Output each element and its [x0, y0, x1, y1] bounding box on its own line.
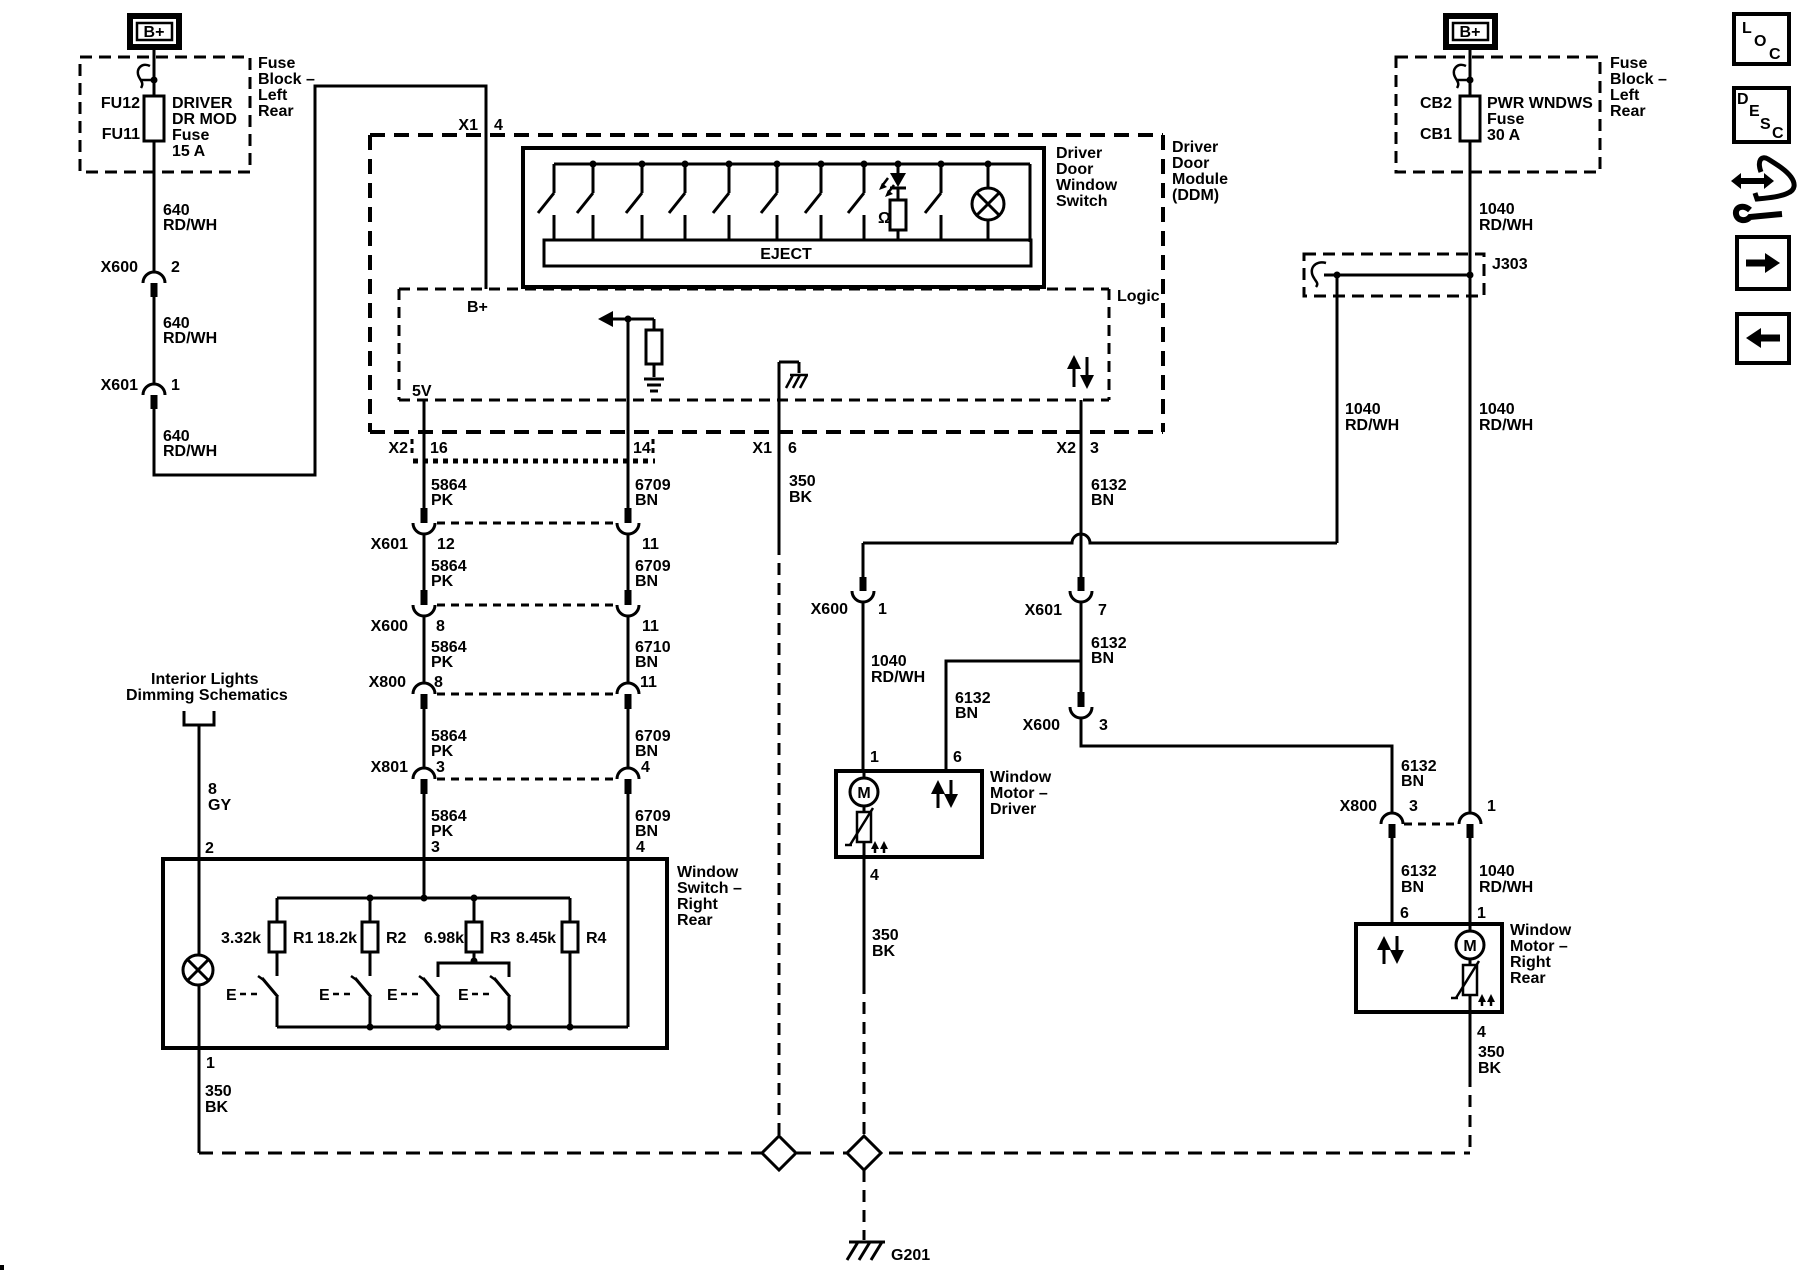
svg-text:FU11: FU11: [102, 126, 140, 143]
svg-text:4: 4: [494, 117, 503, 134]
svg-text:PK: PK: [431, 573, 454, 590]
svg-text:1040: 1040: [1479, 863, 1515, 880]
wire motor driver to ground bus (350 BK): [864, 857, 899, 1136]
window motor driver box: [836, 771, 982, 857]
junction block J303 dashed box: [1304, 254, 1484, 296]
wire X801-4 to switch pin 4 (6709 BN): [627, 794, 630, 1027]
svg-text:Driver: Driver: [1056, 145, 1102, 162]
svg-text:RD/WH: RD/WH: [163, 330, 217, 347]
svg-text:BK: BK: [872, 943, 896, 960]
node dots top bus: [367, 895, 374, 902]
scan artifact dot: [0, 1265, 4, 1270]
driver door window switch box: [523, 148, 1044, 287]
switch S3: [626, 161, 646, 241]
switch lamp right rear: [183, 955, 213, 985]
svg-text:X801: X801: [371, 759, 408, 776]
wire breaker to X800-1 (1040 RD/WH): [1469, 141, 1472, 813]
connector label X2 pin 3: [1056, 440, 1099, 457]
connector label X1 pin 4: [458, 117, 503, 134]
connector X600 pin 1: [811, 543, 887, 618]
svg-text:E: E: [387, 987, 398, 1004]
svg-text:11: 11: [642, 618, 659, 635]
svg-text:RD/WH: RD/WH: [163, 443, 217, 460]
switch S1: [538, 164, 554, 240]
svg-text:RD/WH: RD/WH: [871, 669, 925, 686]
svg-text:PK: PK: [431, 823, 454, 840]
connector X800 dashes: [1404, 823, 1456, 826]
svg-text:1040: 1040: [1345, 401, 1381, 418]
svg-text:15 A: 15 A: [172, 143, 206, 160]
wire X801-3 to switch pin 3 (5864 PK): [423, 794, 426, 898]
svg-text:X600: X600: [371, 618, 408, 635]
svg-text:(DDM): (DDM): [1172, 187, 1219, 204]
svg-text:8: 8: [436, 618, 445, 635]
svg-text:Rear: Rear: [1610, 103, 1646, 120]
svg-text:30 A: 30 A: [1487, 127, 1521, 144]
label Window Switch - Right Rear: [677, 864, 742, 929]
wire 640 RD/WH fuse to X600: [153, 141, 156, 271]
svg-text:E: E: [319, 987, 330, 1004]
wire X601-12 to X600-8 (5864 PK): [423, 534, 426, 590]
window switch right rear box: [163, 859, 667, 1048]
svg-text:11: 11: [640, 674, 657, 691]
svg-text:350: 350: [1478, 1044, 1505, 1061]
svg-text:8: 8: [208, 781, 217, 798]
node R3 to two switches: [438, 958, 509, 978]
icon LOC: [1734, 14, 1789, 64]
svg-text:Fuse: Fuse: [1487, 111, 1524, 128]
svg-text:1040: 1040: [1479, 401, 1515, 418]
svg-text:X601: X601: [371, 536, 408, 553]
svg-text:X1: X1: [752, 440, 772, 457]
wire diamond to ground G201: [863, 1170, 866, 1240]
wire X2-3 down (6132 BN): [1080, 400, 1083, 508]
wire X800-8 to X801-3 (5864 PK): [423, 709, 426, 768]
svg-text:Window: Window: [1056, 177, 1118, 194]
switch bus wire: [554, 163, 1030, 166]
svg-text:Right: Right: [1510, 954, 1552, 971]
svg-text:3: 3: [431, 839, 440, 856]
connector X601 pins 12 / 11: [371, 508, 659, 553]
splice diamond 2: [847, 1136, 881, 1170]
svg-text:S: S: [1760, 116, 1771, 133]
label 5864 PK (5): [431, 808, 467, 840]
connector X601 pin 1: [101, 377, 180, 409]
svg-text:EJECT: EJECT: [760, 246, 812, 263]
wire 5V to X601 (5864 PK): [423, 400, 426, 508]
connector X800 pin 1 (right): [1459, 798, 1496, 838]
control link E2: [319, 987, 354, 1004]
svg-text:Rear: Rear: [677, 912, 713, 929]
svg-text:FU12: FU12: [101, 95, 140, 112]
svg-text:3.32k: 3.32k: [221, 930, 261, 947]
svg-text:G201: G201: [891, 1247, 930, 1264]
resistor R3 6.98k: [424, 898, 511, 963]
svg-text:X800: X800: [369, 674, 406, 691]
label Fuse Block - Left Rear (right): [1610, 55, 1667, 120]
label 640 RD/WH (2): [163, 315, 217, 347]
label 5864 PK (3): [431, 639, 467, 671]
svg-text:X601: X601: [101, 377, 138, 394]
svg-text:2: 2: [171, 259, 180, 276]
small up arrows driver: [871, 841, 888, 853]
logic dashed box: [399, 289, 1109, 400]
svg-text:BK: BK: [789, 489, 813, 506]
motor M right rear: [1456, 924, 1484, 965]
svg-text:3: 3: [1099, 717, 1108, 734]
svg-text:J303: J303: [1492, 256, 1528, 273]
svg-text:BN: BN: [1091, 650, 1114, 667]
svg-text:Fuse: Fuse: [258, 55, 295, 72]
svg-text:Driver: Driver: [990, 801, 1036, 818]
svg-text:Rear: Rear: [1510, 970, 1546, 987]
svg-text:R2: R2: [386, 930, 407, 947]
svg-text:Interior Lights: Interior Lights: [151, 671, 259, 688]
switch S8: [848, 161, 868, 241]
svg-text:Door: Door: [1172, 155, 1209, 172]
svg-text:B+: B+: [144, 24, 165, 41]
connector X800 pin 3 (right): [1340, 798, 1418, 838]
svg-text:Module: Module: [1172, 171, 1228, 188]
label 6132 BN (3): [955, 690, 991, 722]
svg-text:X600: X600: [811, 601, 848, 618]
svg-text:3: 3: [436, 759, 445, 776]
control link E1: [226, 987, 261, 1004]
resistor R4 8.45k: [516, 898, 607, 1031]
label 6132 BN (5): [1401, 863, 1437, 896]
svg-text:Window: Window: [677, 864, 739, 881]
svg-text:1: 1: [870, 749, 879, 766]
wire X600-11 to X800-11 (6710 BN): [627, 616, 630, 683]
svg-text:6: 6: [953, 749, 962, 766]
svg-text:RD/WH: RD/WH: [1479, 879, 1533, 896]
fuse block left rear (left) dashed box: [80, 57, 250, 172]
label Window Motor - Right Rear: [1510, 922, 1572, 987]
label Driver Door Module (DDM): [1172, 139, 1228, 204]
control link E4: [458, 987, 493, 1004]
svg-text:1: 1: [1477, 905, 1486, 922]
svg-text:M: M: [857, 785, 870, 802]
svg-text:BN: BN: [1091, 492, 1114, 509]
chassis ground in logic (X1-6 net): [779, 362, 808, 400]
wire X600-3 to X800-3 (6132 BN): [1081, 718, 1392, 813]
circuit breaker CB1/CB2 PWR WNDWS 30A: [1460, 96, 1480, 141]
svg-text:12: 12: [437, 536, 455, 553]
wire J303 internal: [1324, 272, 1474, 279]
svg-text:X600: X600: [1023, 717, 1060, 734]
svg-text:RD/WH: RD/WH: [1345, 417, 1399, 434]
svg-text:GY: GY: [208, 797, 231, 814]
label 6709 BN (3): [635, 728, 671, 760]
label 6132 BN (2): [1091, 635, 1127, 667]
wire B+ to breaker: [1469, 47, 1472, 96]
svg-text:Block –: Block –: [258, 71, 315, 88]
resistor bus top: [277, 897, 570, 900]
svg-text:D: D: [1737, 91, 1749, 108]
svg-text:Left: Left: [258, 87, 288, 104]
wire X800-1 to motor pin 1 (1040 RD/WH): [1469, 838, 1472, 924]
wire B+ to fuse: [153, 47, 156, 96]
connector label X1 pin 6: [752, 440, 797, 457]
svg-text:Ω: Ω: [878, 210, 891, 227]
svg-text:Rear: Rear: [258, 103, 294, 120]
fuse block left rear (right) dashed box: [1396, 57, 1600, 172]
svg-text:PWR WNDWS: PWR WNDWS: [1487, 95, 1593, 112]
label Fuse Block - Left Rear (left): [258, 55, 315, 120]
LED with resistor (dimming): [878, 161, 906, 241]
svg-text:O: O: [1754, 33, 1766, 50]
svg-text:PK: PK: [431, 492, 454, 509]
svg-text:R4: R4: [586, 930, 607, 947]
svg-text:B+: B+: [1460, 24, 1481, 41]
icon arrow left: [1737, 314, 1789, 363]
svg-text:3: 3: [1090, 440, 1099, 457]
svg-text:11: 11: [642, 536, 659, 553]
wire X601-7 down (6132 BN): [1080, 602, 1083, 661]
svg-text:Fuse: Fuse: [172, 127, 209, 144]
svg-text:BN: BN: [635, 743, 658, 760]
svg-text:X800: X800: [1340, 798, 1377, 815]
svg-text:5V: 5V: [412, 383, 432, 400]
svg-text:BN: BN: [635, 654, 658, 671]
up/down arrows driver motor: [931, 780, 958, 808]
thermal protector right rear: [1451, 961, 1479, 1012]
connector X600 pin 2: [101, 259, 180, 297]
switch SW3: [419, 976, 442, 1031]
label 6710 BN: [635, 639, 671, 671]
svg-text:4: 4: [870, 867, 879, 884]
svg-text:X601: X601: [1025, 602, 1062, 619]
svg-text:C: C: [1772, 125, 1784, 142]
switch SW4: [490, 976, 513, 1031]
label 1040 RD/WH (right 3): [1479, 863, 1533, 896]
label 6709 BN (4): [635, 808, 671, 840]
label Window Motor - Driver: [990, 769, 1052, 818]
window up/down arrows in logic: [1067, 355, 1094, 389]
label 6709 BN (1): [635, 477, 671, 509]
circuit breaker hook left: [138, 65, 150, 88]
svg-text:BN: BN: [1401, 879, 1424, 896]
ground G201: [847, 1242, 930, 1264]
svg-text:E: E: [226, 987, 237, 1004]
indicator lamp in switch assembly: [972, 161, 1004, 241]
svg-text:BN: BN: [955, 705, 978, 722]
wire J303 tap to driver branch (1040 RD/WH): [1336, 275, 1339, 543]
svg-text:6: 6: [1400, 905, 1409, 922]
svg-text:Driver: Driver: [1172, 139, 1218, 156]
wire resistor node to pin 14: [627, 319, 630, 508]
svg-text:PK: PK: [431, 654, 454, 671]
svg-text:7: 7: [1098, 602, 1107, 619]
window motor right rear box: [1356, 924, 1502, 1012]
resistor R2 18.2k: [317, 898, 407, 976]
svg-text:Door: Door: [1056, 161, 1093, 178]
svg-text:6132: 6132: [1401, 863, 1437, 880]
svg-text:1040: 1040: [1479, 201, 1515, 218]
svg-text:1040: 1040: [871, 653, 907, 670]
wire 1040 RD/WH branch to driver motor with crossover hop: [863, 534, 1337, 543]
svg-text:Dimming Schematics: Dimming Schematics: [126, 687, 288, 704]
svg-text:8: 8: [434, 674, 443, 691]
wire branch to motor pin 6: [946, 661, 1081, 771]
svg-text:Block –: Block –: [1610, 71, 1667, 88]
svg-text:E: E: [1749, 103, 1760, 120]
svg-text:350: 350: [205, 1083, 232, 1100]
svg-text:X600: X600: [101, 259, 138, 276]
svg-text:1: 1: [878, 601, 887, 618]
label 1040 RD/WH (right 2): [1479, 401, 1533, 434]
label 1040 RD/WH (right 1): [1479, 201, 1533, 234]
label PWR WNDWS Fuse 30 A: [1487, 95, 1593, 144]
label 640 RD/WH (3): [163, 428, 217, 460]
EJECT bar: [544, 240, 1031, 266]
svg-text:18.2k: 18.2k: [317, 930, 357, 947]
svg-text:C: C: [1769, 46, 1781, 63]
label 6132 BN (4): [1401, 758, 1437, 790]
svg-text:1: 1: [206, 1055, 215, 1072]
label 6132 BN (1): [1091, 477, 1127, 509]
svg-text:BN: BN: [1401, 773, 1424, 790]
earth ground in logic: [644, 379, 664, 391]
svg-text:4: 4: [636, 839, 645, 856]
label 1040 RD/WH (motor drv): [871, 653, 925, 686]
svg-text:X1: X1: [458, 117, 478, 134]
svg-text:X2: X2: [388, 440, 408, 457]
driver door module DDM dashed box: [370, 135, 1163, 432]
wire X800-11 to X801-4 (6709 BN): [627, 709, 630, 768]
svg-text:16: 16: [430, 440, 448, 457]
switch output bus: [277, 1026, 628, 1029]
thermal protector driver: [845, 808, 873, 857]
wire motor right rear to ground bus (350 BK): [1470, 1012, 1505, 1153]
svg-text:RD/WH: RD/WH: [1479, 217, 1533, 234]
switch SW2: [351, 976, 374, 1031]
resistor R1 3.32k: [221, 898, 314, 976]
svg-text:Switch –: Switch –: [677, 880, 742, 897]
svg-text:14: 14: [633, 440, 651, 457]
wire X1-6 to ground bus (350 BK): [779, 400, 816, 1136]
svg-text:CB2: CB2: [1420, 95, 1452, 112]
control link E3: [387, 987, 422, 1004]
wire X600-8 to X800-8 (5864 PK): [423, 616, 426, 683]
connector X601 pin 7: [1025, 577, 1107, 619]
label 1040 RD/WH (tap): [1345, 401, 1399, 434]
circuit breaker hook right: [1454, 65, 1466, 88]
svg-text:Right: Right: [677, 896, 719, 913]
svg-text:8.45k: 8.45k: [516, 930, 556, 947]
wire X601-11 to X600-11 (6709 BN): [627, 534, 630, 590]
svg-text:RD/WH: RD/WH: [163, 217, 217, 234]
small up arrows right rear: [1478, 994, 1495, 1006]
switch S5: [713, 161, 733, 241]
svg-text:R3: R3: [490, 930, 511, 947]
splice diamond 1: [762, 1136, 796, 1170]
connector X800 pins 8 / 11: [369, 674, 657, 709]
internal pull-up: arrow, resistor, ground: [598, 311, 662, 377]
svg-text:BN: BN: [635, 573, 658, 590]
switch S7: [805, 161, 825, 241]
svg-text:350: 350: [872, 927, 899, 944]
wire X800-3 to motor pin 6 (6132 BN): [1391, 838, 1394, 924]
switch S6: [761, 161, 781, 241]
label 5864 PK (4): [431, 728, 467, 760]
svg-text:R1: R1: [293, 930, 314, 947]
switch SW1: [258, 976, 278, 1027]
svg-text:DR MOD: DR MOD: [172, 111, 237, 128]
svg-text:RD/WH: RD/WH: [1479, 417, 1533, 434]
svg-text:Fuse: Fuse: [1610, 55, 1647, 72]
svg-text:BK: BK: [205, 1099, 229, 1116]
power symbol B+ right: [1446, 16, 1495, 47]
power symbol B+ left: [130, 16, 179, 47]
svg-text:Window: Window: [1510, 922, 1572, 939]
svg-text:B+: B+: [467, 299, 488, 316]
svg-text:Logic: Logic: [1117, 288, 1160, 305]
svg-text:L: L: [1742, 20, 1752, 37]
svg-text:350: 350: [789, 473, 816, 490]
svg-text:M: M: [1463, 938, 1476, 955]
label Driver Door Window Switch: [1056, 145, 1118, 210]
connector X600 pin 3: [1023, 661, 1108, 734]
label DRIVER DR MOD Fuse 15 A: [172, 95, 237, 160]
svg-text:2: 2: [205, 840, 214, 857]
svg-text:X2: X2: [1056, 440, 1076, 457]
wire 640 RD/WH X600 to X601: [153, 297, 156, 384]
svg-text:4: 4: [1477, 1024, 1486, 1041]
svg-text:6.98k: 6.98k: [424, 930, 464, 947]
svg-text:Motor –: Motor –: [990, 785, 1048, 802]
switch S2: [577, 161, 597, 241]
switch S4: [669, 161, 689, 241]
svg-text:6: 6: [788, 440, 797, 457]
wire hop vertical continues: [1080, 508, 1083, 577]
wire 8 GY interior lights to switch pin 2: [198, 725, 201, 898]
icon forward/link arrows: [1731, 158, 1794, 220]
J303 hook terminal: [1312, 262, 1326, 287]
label 640 RD/WH (1): [163, 202, 217, 234]
svg-text:BN: BN: [635, 823, 658, 840]
svg-text:BK: BK: [1478, 1060, 1502, 1077]
label 6709 BN (2): [635, 558, 671, 590]
svg-text:Switch: Switch: [1056, 193, 1108, 210]
wire 640 RD/WH to DDM X1 pin 4: [154, 86, 486, 475]
svg-text:Motor –: Motor –: [1510, 938, 1568, 955]
icon DESC: [1734, 88, 1789, 142]
svg-text:CB1: CB1: [1420, 126, 1452, 143]
svg-text:1: 1: [171, 377, 180, 394]
switch S9: [925, 161, 945, 241]
svg-text:E: E: [458, 987, 469, 1004]
icon arrow right: [1737, 237, 1789, 289]
up/down arrows right rear motor: [1377, 936, 1404, 964]
svg-text:Window: Window: [990, 769, 1052, 786]
svg-text:3: 3: [1409, 798, 1418, 815]
label Interior Lights Dimming Schematics: [126, 671, 288, 725]
svg-text:PK: PK: [431, 743, 454, 760]
svg-text:BN: BN: [635, 492, 658, 509]
svg-text:4: 4: [641, 759, 650, 776]
wire bus right drop: [1029, 164, 1032, 242]
fuse FU11/FU12 DRIVER DR MOD 15A: [144, 96, 164, 141]
wire lamp leads: [198, 898, 201, 955]
svg-text:DRIVER: DRIVER: [172, 95, 233, 112]
wire X600-1 to motor pin 1 (1040 RD/WH): [862, 602, 865, 771]
ground bus dashed wire: [199, 1152, 1470, 1155]
label 8 GY: [208, 781, 231, 814]
wire switch pin 1 to ground bus (350 BK): [199, 1048, 232, 1153]
motor M driver: [850, 771, 878, 812]
label 5864 PK (2): [431, 558, 467, 590]
